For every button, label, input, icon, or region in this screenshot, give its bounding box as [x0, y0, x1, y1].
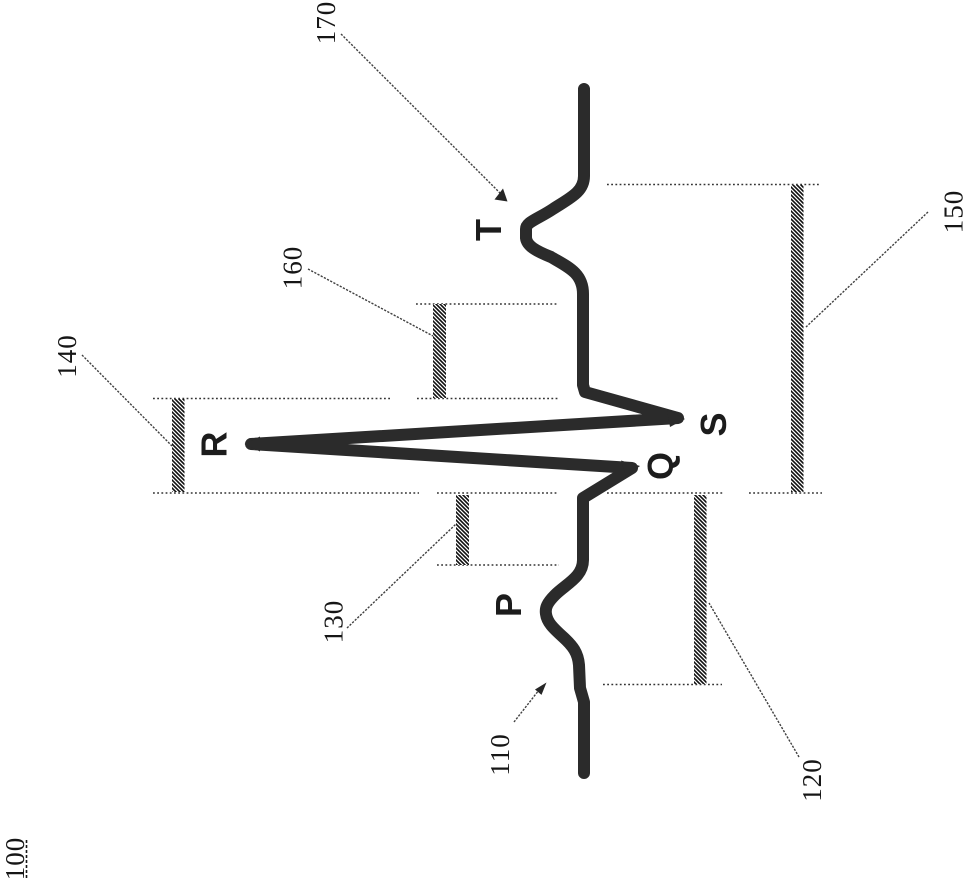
svg-text:100: 100 [0, 837, 30, 881]
svg-text:170: 170 [311, 1, 341, 45]
svg-text:S: S [693, 412, 734, 436]
svg-text:R: R [194, 432, 235, 458]
svg-text:140: 140 [52, 334, 82, 378]
svg-text:Q: Q [640, 452, 681, 480]
svg-text:160: 160 [278, 246, 308, 290]
svg-text:130: 130 [319, 600, 349, 644]
svg-text:120: 120 [797, 758, 827, 802]
svg-text:150: 150 [939, 190, 969, 234]
svg-text:P: P [488, 593, 529, 617]
svg-text:110: 110 [485, 733, 515, 776]
svg-text:T: T [468, 219, 509, 241]
